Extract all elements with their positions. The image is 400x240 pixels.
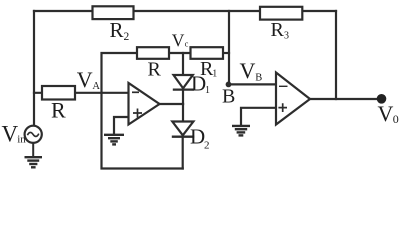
ground at op-amp U1 <box>104 135 124 145</box>
wire junction down to D2 anode <box>182 104 184 122</box>
node B junction dot <box>226 82 232 88</box>
wire D1 cathode to op-amp1 output junction <box>182 90 184 104</box>
wire R3 to output vertical <box>335 11 337 99</box>
op-amp U1 <box>129 83 160 125</box>
svg-text:c: c <box>185 38 189 48</box>
op-amp U2 plus sign <box>278 103 287 112</box>
resistor R feedback <box>137 47 169 59</box>
svg-text:2: 2 <box>204 140 210 152</box>
wire node B to op-amp2 inverting input <box>229 83 277 85</box>
svg-text:D: D <box>191 72 206 96</box>
wire node VA up to feedback R <box>102 53 138 93</box>
op-amp U2 minus sign <box>279 85 288 87</box>
op-amp U2 <box>276 73 310 125</box>
node V0 terminal dot <box>377 94 387 104</box>
wire op-amp2 output to V0 <box>310 98 382 100</box>
op-amp U1 minus sign <box>132 91 139 93</box>
wire op-amp2 non-inverting input to ground <box>241 108 276 125</box>
svg-text:2: 2 <box>124 31 130 43</box>
wire R1 to node B vertical <box>223 52 229 54</box>
wire top rail from input node through R2 and R3 <box>34 10 336 12</box>
ground at op-amp U2 <box>232 126 250 135</box>
wire Vin to R to op-amp1 inverting input (node VA) <box>34 92 129 94</box>
wire bottom return to node VA <box>102 93 183 169</box>
wire feedback row R to R1 through node Vc <box>169 52 191 54</box>
diode D1 <box>173 75 194 90</box>
svg-text:1: 1 <box>205 85 210 96</box>
svg-text:V: V <box>378 101 394 126</box>
wire left vertical input node <box>33 11 35 126</box>
svg-text:R: R <box>51 98 66 123</box>
wire node Vc down to D1 <box>182 53 184 75</box>
svg-text:V: V <box>240 58 256 83</box>
svg-text:B: B <box>255 73 262 84</box>
source Vin <box>25 126 42 143</box>
svg-text:V: V <box>77 67 93 92</box>
svg-text:R: R <box>110 18 124 42</box>
wire op-amp1 non-inverting input to ground <box>114 117 129 134</box>
op-amp U1 plus sign <box>133 109 142 118</box>
svg-text:R: R <box>148 59 162 81</box>
svg-text:in: in <box>17 134 26 146</box>
svg-text:A: A <box>92 81 100 92</box>
svg-text:D: D <box>190 125 205 149</box>
svg-text:V: V <box>172 30 185 50</box>
diode D2 <box>172 122 194 137</box>
resistor R input <box>42 86 75 100</box>
svg-text:B: B <box>222 85 235 107</box>
svg-text:1: 1 <box>212 69 217 80</box>
resistor R3 <box>260 7 302 20</box>
wire op-amp1 output <box>160 103 184 105</box>
resistor R1 <box>191 47 224 59</box>
svg-text:3: 3 <box>284 31 289 42</box>
ground below Vin <box>25 143 43 167</box>
wire D2 cathode down to bottom return <box>182 138 184 169</box>
svg-text:0: 0 <box>393 112 399 126</box>
resistor R2 <box>93 6 134 19</box>
wire node-B vertical <box>228 11 230 84</box>
svg-text:R: R <box>271 19 285 41</box>
svg-text:V: V <box>2 121 19 146</box>
